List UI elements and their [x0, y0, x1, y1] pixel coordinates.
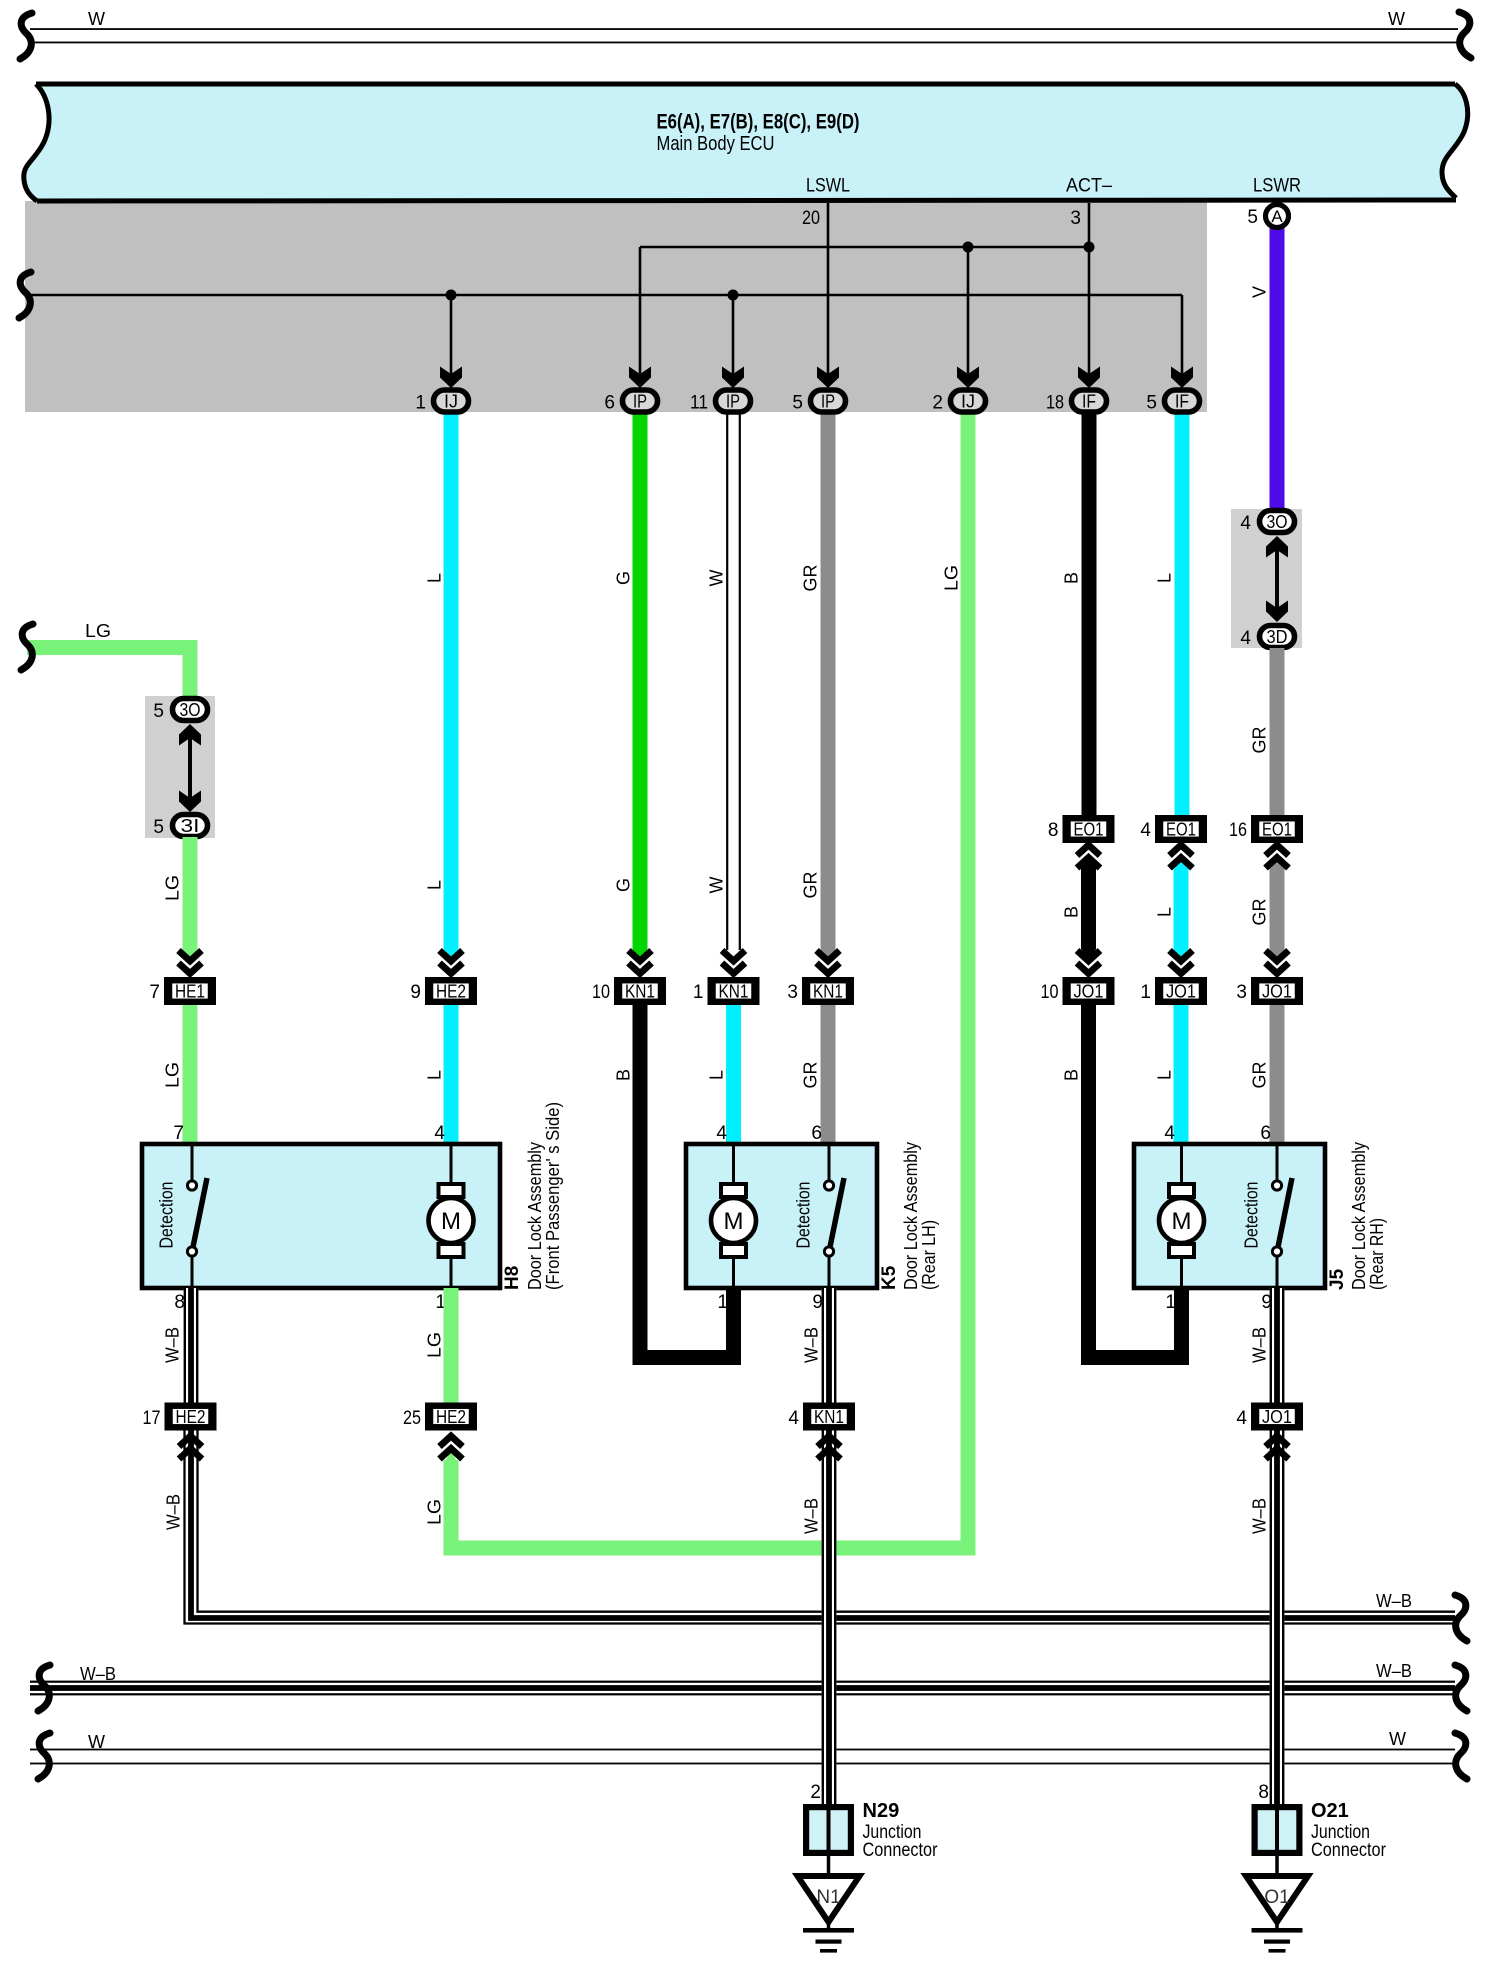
svg-text:W–B: W–B	[801, 1498, 821, 1534]
arrow into connector at x=640	[629, 367, 651, 389]
door lock assembly K5 box	[686, 1144, 877, 1288]
svg-text:17: 17	[143, 1408, 161, 1429]
wire GR JO1-3 to J5 pin 6	[1270, 1005, 1285, 1144]
double arrow between 3O and 3D	[1275, 545, 1279, 615]
svg-text:V: V	[1249, 286, 1269, 298]
svg-text:GR: GR	[1249, 726, 1269, 753]
svg-text:KN1: KN1	[719, 981, 749, 1001]
svg-text:IP: IP	[821, 392, 835, 412]
connector oval IF pin 5	[1165, 390, 1200, 412]
connector block 3O-3I gray box	[145, 696, 215, 838]
svg-text:1: 1	[415, 393, 426, 414]
svg-text:Door Lock Assembly: Door Lock Assembly	[1349, 1142, 1369, 1290]
wire GR from 3D to EO1	[1270, 648, 1285, 816]
wire W-B bus	[30, 1681, 1455, 1696]
ground N1	[827, 1854, 831, 1876]
connector KN1 pin 1	[711, 980, 757, 1002]
break symbol W-B right 1	[1455, 1595, 1467, 1641]
wire B from IF18 to EO1	[1082, 412, 1097, 816]
svg-text:JO1: JO1	[1262, 1407, 1292, 1427]
arrow into connector at x=1089	[1078, 367, 1100, 389]
wire L KN1-1 to K5 pin 4	[726, 1005, 741, 1144]
K5 motor M	[732, 1144, 735, 1186]
door lock assembly H8 box	[142, 1144, 500, 1288]
break symbol gray region left	[19, 272, 31, 318]
connector oval 3O pin 5 left	[173, 699, 208, 721]
arrow into connector at x=1182	[1171, 367, 1193, 389]
svg-text:6: 6	[1260, 1123, 1271, 1144]
wire W-B H8 pin8 to HE2 17	[184, 1288, 199, 1403]
wire L HE2 to H8 pin 4	[444, 1005, 459, 1144]
svg-text:W–B: W–B	[801, 1327, 821, 1363]
break symbol W bus right	[1455, 1733, 1467, 1779]
svg-text:20: 20	[802, 208, 820, 229]
svg-text:GR: GR	[1249, 1061, 1269, 1088]
svg-text:3I: 3I	[181, 816, 200, 836]
arrow below HE2 17	[179, 1436, 202, 1447]
svg-text:4: 4	[1236, 1408, 1247, 1429]
svg-text:Detection: Detection	[1241, 1182, 1261, 1249]
svg-text:W: W	[706, 570, 726, 587]
door lock assembly J5 box	[1134, 1144, 1325, 1288]
wire L JO1-1 to J5 pin 4	[1174, 1005, 1189, 1144]
svg-text:Connector: Connector	[1311, 1840, 1387, 1861]
junction dot bus IJ	[446, 290, 457, 301]
junction dot bus IP	[728, 290, 739, 301]
wire L from IF5 to EO1	[1175, 412, 1190, 816]
svg-text:(Rear LH): (Rear LH)	[919, 1220, 939, 1290]
svg-text:9: 9	[812, 1292, 823, 1313]
connector block 3O-3D gray box	[1231, 509, 1302, 648]
ECU internal gray region	[25, 201, 1207, 412]
svg-text:4: 4	[788, 1408, 799, 1429]
svg-text:10: 10	[1041, 982, 1059, 1003]
ECU box E6 E7 E8 E9 Main Body ECU	[24, 84, 1468, 201]
svg-text:W: W	[1389, 1729, 1406, 1749]
svg-text:GR: GR	[800, 564, 820, 591]
svg-text:1: 1	[1165, 1292, 1176, 1313]
wire G from IP6 to KN1	[633, 412, 648, 949]
wire GR EO1 to JO1	[1270, 856, 1285, 962]
arrow below EO1 pin 8	[1077, 845, 1100, 856]
wire B EO1 to JO1	[1081, 856, 1096, 962]
wire LG H8 pin1 to HE2 25	[444, 1288, 459, 1403]
svg-text:8: 8	[1048, 820, 1059, 841]
connector oval IJ pin 2	[951, 390, 986, 412]
svg-text:JO1: JO1	[1262, 981, 1292, 1001]
arrow into KN1 pin 1	[722, 951, 745, 962]
connector HE2 pin 9	[428, 980, 474, 1002]
wire W-B K5 pin9 to KN1 4	[822, 1288, 837, 1403]
H8 detection switch	[191, 1144, 194, 1181]
svg-text:J5: J5	[1327, 1268, 1348, 1290]
wire B KN1-10 loop to K5 pin 1	[640, 1005, 734, 1358]
arrow into JO1 pin 10	[1077, 951, 1100, 962]
svg-text:JO1: JO1	[1074, 981, 1104, 1001]
connector EO1 pin 8	[1066, 818, 1112, 840]
wire W-B J5 pin9 to JO1 4	[1270, 1288, 1285, 1403]
break symbol W bus left	[38, 1733, 50, 1779]
svg-text:W–B: W–B	[1249, 1327, 1269, 1363]
wire GR from IP5 to KN1	[821, 412, 836, 949]
svg-text:L: L	[706, 1070, 726, 1080]
svg-text:3D: 3D	[1267, 627, 1288, 647]
svg-text:3: 3	[1070, 208, 1081, 229]
svg-text:IP: IP	[726, 392, 740, 412]
svg-text:2: 2	[810, 1782, 821, 1803]
svg-text:A: A	[1271, 207, 1283, 226]
connector oval 3I pin 5	[173, 815, 208, 837]
svg-text:5: 5	[1146, 393, 1157, 414]
svg-text:HE2: HE2	[436, 1407, 466, 1427]
svg-text:W–B: W–B	[1376, 1661, 1412, 1681]
wire L from IJ1 to HE2	[444, 412, 459, 949]
svg-text:W: W	[1388, 9, 1405, 29]
svg-text:7: 7	[149, 982, 160, 1003]
svg-text:E6(A), E7(B), E8(C), E9(D): E6(A), E7(B), E8(C), E9(D)	[657, 111, 860, 134]
svg-text:IF: IF	[1082, 392, 1096, 412]
svg-text:B: B	[613, 1069, 633, 1081]
svg-text:5: 5	[153, 817, 164, 838]
svg-text:EO1: EO1	[1262, 819, 1292, 839]
svg-text:16: 16	[1229, 820, 1247, 841]
svg-text:K5: K5	[879, 1265, 900, 1290]
svg-text:HE1: HE1	[175, 981, 205, 1001]
junction dot ACT- branch 2	[1084, 242, 1095, 253]
svg-text:B: B	[1061, 1069, 1081, 1081]
svg-text:ACT–: ACT–	[1066, 176, 1112, 197]
svg-text:3: 3	[1236, 982, 1247, 1003]
connector EO1 pin 4	[1158, 818, 1204, 840]
connector JO1 pin 1	[1158, 980, 1204, 1002]
svg-text:IJ: IJ	[961, 392, 975, 412]
svg-text:EO1: EO1	[1166, 819, 1196, 839]
arrow into HE1 pin 7	[179, 951, 202, 962]
svg-text:IJ: IJ	[444, 392, 458, 412]
svg-text:Connector: Connector	[863, 1840, 939, 1861]
arrow into KN1 pin 10	[629, 951, 652, 962]
wire W-B KN1 4 to N29	[822, 1431, 837, 1805]
svg-text:8: 8	[174, 1292, 185, 1313]
svg-text:Door Lock Assembly: Door Lock Assembly	[525, 1142, 545, 1290]
wire V from LSWR A to 3O	[1270, 216, 1285, 509]
connector oval IF pin 18	[1072, 390, 1107, 412]
svg-text:(Rear RH): (Rear RH)	[1367, 1218, 1387, 1290]
svg-text:HE2: HE2	[436, 981, 466, 1001]
svg-text:L: L	[424, 573, 444, 583]
connector oval IP pin 5	[811, 390, 846, 412]
svg-text:L: L	[1154, 907, 1174, 917]
wire W bus top	[30, 28, 1458, 30]
svg-text:4: 4	[1140, 820, 1151, 841]
svg-text:3O: 3O	[1267, 512, 1288, 532]
svg-text:6: 6	[604, 393, 615, 414]
K5 detection switch	[828, 1144, 831, 1181]
H8 motor M	[450, 1144, 453, 1186]
break symbol W-B bus left	[38, 1665, 50, 1711]
svg-text:GR: GR	[800, 871, 820, 898]
connector EO1 pin 16	[1254, 818, 1300, 840]
J5 motor M	[1180, 1144, 1183, 1186]
connector HE2 pin 17 lower row	[168, 1406, 214, 1428]
connector JO1 pin 3	[1254, 980, 1300, 1002]
wire LG from IJ2 down and across to HE2 25	[451, 412, 968, 1548]
svg-text:GR: GR	[800, 1061, 820, 1088]
svg-text:3: 3	[787, 982, 798, 1003]
junction dot ACT- branch 1	[963, 242, 974, 253]
svg-text:10: 10	[592, 982, 610, 1003]
svg-text:L: L	[1154, 1070, 1174, 1080]
svg-text:B: B	[1061, 572, 1081, 584]
wire ACT- pin 3 branch	[1088, 203, 1091, 375]
svg-text:9: 9	[410, 982, 421, 1003]
connector HE1 pin 7	[167, 980, 213, 1002]
svg-text:H8: H8	[502, 1266, 523, 1290]
svg-text:JO1: JO1	[1166, 981, 1196, 1001]
svg-text:8: 8	[1258, 1782, 1269, 1803]
junction connector N29	[806, 1807, 851, 1853]
svg-text:Detection: Detection	[793, 1182, 813, 1249]
svg-text:EO1: EO1	[1074, 819, 1104, 839]
svg-text:LG: LG	[162, 875, 182, 901]
break symbol top-left	[20, 13, 32, 59]
svg-text:1: 1	[693, 982, 704, 1003]
svg-text:LG: LG	[941, 565, 961, 591]
svg-text:W: W	[88, 1732, 105, 1752]
svg-text:LSWR: LSWR	[1253, 176, 1301, 197]
connector JO1 pin 4 lower row	[1254, 1406, 1300, 1428]
arrow into JO1 pin 3	[1266, 951, 1289, 962]
svg-text:LG: LG	[424, 1499, 444, 1525]
svg-text:6: 6	[811, 1123, 822, 1144]
svg-text:LG: LG	[162, 1062, 182, 1088]
svg-text:L: L	[424, 1070, 444, 1080]
svg-text:N29: N29	[863, 1800, 900, 1822]
wire L EO1 to JO1	[1174, 856, 1189, 962]
svg-text:KN1: KN1	[625, 981, 655, 1001]
svg-text:W: W	[706, 877, 726, 894]
wire W-B JO1 4 to O21	[1270, 1431, 1285, 1805]
wire GR KN1-3 to K5 pin 6	[821, 1005, 836, 1144]
wire B JO1-10 loop to J5 pin 1	[1089, 1005, 1182, 1358]
wire W bus bottom	[30, 1749, 1455, 1751]
double arrow between 3O and 3I	[188, 733, 192, 803]
svg-text:L: L	[1154, 573, 1174, 583]
connector HE2 pin 25 lower row	[428, 1406, 474, 1428]
connector oval 3D pin 4	[1260, 626, 1295, 648]
svg-text:3O: 3O	[180, 700, 201, 720]
svg-text:4: 4	[1240, 513, 1251, 534]
connector oval IP pin 6	[623, 390, 658, 412]
arrow below HE2 25	[440, 1436, 463, 1447]
svg-text:4: 4	[1164, 1123, 1175, 1144]
connector oval IP pin 11	[716, 390, 751, 412]
svg-text:5: 5	[1247, 207, 1258, 228]
svg-text:W–B: W–B	[80, 1664, 116, 1684]
connector oval IJ pin 1	[434, 390, 469, 412]
arrow into connector at x=733	[722, 367, 744, 389]
svg-text:O21: O21	[1311, 1800, 1349, 1822]
svg-text:1: 1	[1140, 982, 1151, 1003]
svg-text:IF: IF	[1175, 392, 1189, 412]
svg-text:Main Body ECU: Main Body ECU	[657, 133, 775, 155]
svg-text:GR: GR	[1249, 898, 1269, 925]
arrow into connector at x=968	[957, 367, 979, 389]
break symbol W-B bus right	[1455, 1665, 1467, 1711]
arrow into connector at x=828	[817, 367, 839, 389]
svg-text:W–B: W–B	[163, 1494, 183, 1530]
svg-text:IP: IP	[633, 392, 647, 412]
svg-text:W–B: W–B	[1249, 1498, 1269, 1534]
connector oval 3O pin 4 right	[1260, 511, 1295, 533]
break symbol LG left	[21, 624, 33, 670]
arrow below JO1 4	[1266, 1436, 1289, 1447]
svg-text:1: 1	[717, 1292, 728, 1313]
svg-text:18: 18	[1046, 393, 1064, 414]
wire LG from harness left to 3O	[27, 648, 190, 698]
svg-text:(Front Passenger' s Side): (Front Passenger' s Side)	[543, 1102, 563, 1290]
svg-text:B: B	[1061, 906, 1081, 918]
svg-text:5: 5	[153, 701, 164, 722]
svg-text:HE2: HE2	[176, 1407, 206, 1427]
svg-text:4: 4	[434, 1123, 445, 1144]
svg-text:4: 4	[716, 1123, 727, 1144]
svg-text:25: 25	[403, 1408, 421, 1429]
ground O1	[1275, 1854, 1279, 1876]
arrow into JO1 pin 1	[1170, 951, 1193, 962]
J5 detection switch	[1276, 1144, 1279, 1181]
arrow into KN1 pin 3	[817, 951, 840, 962]
svg-text:N1: N1	[816, 1887, 840, 1908]
wire W-B from HE2 17 to right break	[184, 1431, 199, 1619]
connector KN1 pin 10	[617, 980, 663, 1002]
arrow below EO1 pin 4	[1170, 845, 1193, 856]
arrow into HE2 pin 9	[440, 951, 463, 962]
svg-text:G: G	[613, 878, 633, 892]
svg-text:O1: O1	[1264, 1887, 1289, 1908]
svg-text:M: M	[724, 1208, 744, 1235]
arrow below EO1 pin 16	[1266, 845, 1289, 856]
arrow into connector at x=451	[440, 367, 462, 389]
svg-text:Door Lock Assembly: Door Lock Assembly	[901, 1142, 921, 1290]
connector KN1 pin 4 lower row	[806, 1406, 852, 1428]
svg-text:2: 2	[932, 393, 943, 414]
wire W from IP11 to KN1	[726, 412, 741, 950]
svg-text:M: M	[441, 1208, 461, 1235]
svg-text:11: 11	[690, 393, 708, 414]
svg-text:4: 4	[1240, 628, 1251, 649]
svg-text:5: 5	[792, 393, 803, 414]
svg-text:LG: LG	[85, 621, 111, 641]
svg-text:LG: LG	[424, 1332, 444, 1358]
wire LSWL pin 20 to connector IP	[827, 203, 830, 375]
connector JO1 pin 10	[1066, 980, 1112, 1002]
svg-text:Detection: Detection	[156, 1182, 176, 1249]
wire internal bus to connectors IJ IP IF	[30, 294, 1182, 297]
arrow below KN1 4	[818, 1436, 841, 1447]
wire LG HE1 to H8 pin 7	[183, 1005, 198, 1144]
svg-text:W–B: W–B	[162, 1327, 182, 1363]
connector circle A pin 5	[1266, 205, 1289, 228]
wire LG from 3I to HE1	[183, 837, 198, 949]
svg-text:W–B: W–B	[1376, 1591, 1412, 1611]
svg-text:7: 7	[173, 1123, 184, 1144]
connector KN1 pin 3	[805, 980, 851, 1002]
svg-text:W: W	[88, 9, 105, 29]
svg-text:G: G	[613, 571, 633, 585]
svg-text:LSWL: LSWL	[806, 176, 850, 197]
break symbol top-right	[1459, 12, 1471, 58]
svg-text:KN1: KN1	[814, 1407, 844, 1427]
svg-text:M: M	[1172, 1208, 1192, 1235]
junction connector O21	[1255, 1807, 1300, 1853]
svg-text:KN1: KN1	[813, 981, 843, 1001]
svg-text:L: L	[424, 880, 444, 890]
